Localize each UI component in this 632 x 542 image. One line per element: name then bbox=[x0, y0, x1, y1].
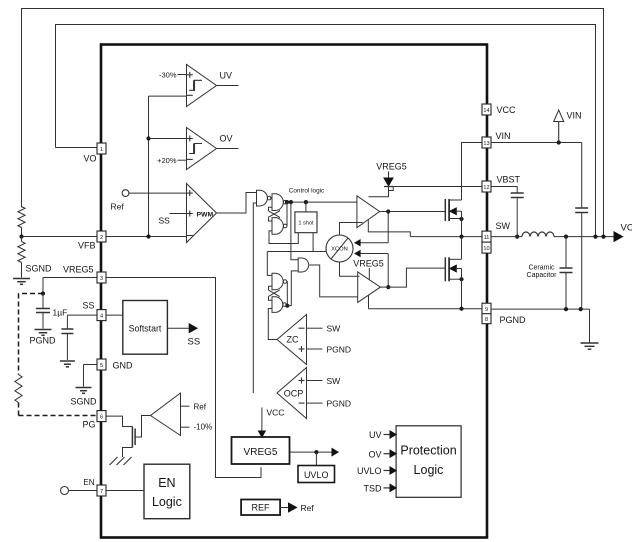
nand gate G1 bbox=[257, 190, 272, 206]
label VIN pin bbox=[496, 131, 511, 141]
wire low driver out to gate bbox=[380, 268, 445, 287]
label EN pin bbox=[83, 478, 94, 487]
svg-text:VO: VO bbox=[621, 223, 632, 234]
svg-text:XCON: XCON bbox=[331, 247, 348, 253]
wire XCON top to high driver bbox=[340, 223, 363, 236]
svg-text:ZC: ZC bbox=[287, 335, 299, 345]
svg-text:2: 2 bbox=[100, 235, 103, 241]
diode D1 (bootstrap) bbox=[384, 172, 393, 187]
capacitor C4 (bootstrap) bbox=[511, 193, 524, 198]
block Protection Logic bbox=[396, 426, 461, 498]
svg-text:SW: SW bbox=[327, 324, 341, 334]
latch1 cross wires bbox=[269, 207, 280, 221]
svg-text:VREG5: VREG5 bbox=[353, 259, 384, 269]
terminal EN input circle bbox=[61, 487, 69, 495]
node VO fb outer junction bbox=[601, 235, 605, 239]
comparator UV minus input bbox=[149, 94, 193, 97]
wire G5 output bbox=[287, 305, 292, 307]
wire sense line UV/OV/PWM bbox=[148, 96, 150, 236]
wire latch2 to G6 bottom input bbox=[291, 271, 298, 306]
wire softstart SS output bbox=[167, 324, 197, 333]
wire UVLO arrow bbox=[384, 467, 397, 474]
wire M2 source to PGND bbox=[461, 269, 463, 309]
label XCON bbox=[331, 247, 348, 253]
label SGND (divider) bbox=[26, 264, 53, 274]
label UVLO (prot in) bbox=[357, 466, 382, 476]
svg-text:1: 1 bbox=[100, 147, 103, 153]
svg-text:OCP: OCP bbox=[284, 389, 304, 399]
svg-text:1 shot: 1 shot bbox=[298, 221, 314, 227]
label SW (OCP) bbox=[327, 376, 341, 386]
svg-text:Logic: Logic bbox=[152, 495, 182, 509]
svg-text:Ref: Ref bbox=[301, 503, 315, 513]
label Softstart block bbox=[129, 324, 162, 334]
wire SW pin11 to inductor bbox=[491, 236, 522, 238]
capacitor C1 1uF (VREG5 bypass) bbox=[36, 309, 50, 313]
svg-text:PWM: PWM bbox=[197, 212, 214, 219]
label -30% bbox=[159, 71, 177, 80]
label PGND (C1) bbox=[30, 336, 57, 346]
label UV (prot in) bbox=[369, 430, 382, 440]
wire C4 to SW bbox=[516, 198, 518, 237]
svg-text:Ref: Ref bbox=[111, 202, 125, 212]
svg-text:SGND: SGND bbox=[71, 397, 98, 407]
wire UV arrow bbox=[384, 431, 397, 438]
label VREG5 block bbox=[244, 447, 278, 458]
svg-text:4: 4 bbox=[100, 313, 103, 319]
block Softstart bbox=[123, 301, 168, 355]
wire VREG5 pin3 to block bbox=[106, 278, 261, 478]
svg-text:Ref: Ref bbox=[194, 403, 207, 412]
wire G4 output down bbox=[286, 282, 289, 306]
and gate G6 bbox=[298, 258, 309, 272]
label Ref (PWM) bbox=[111, 202, 125, 212]
comparator OV minus input bbox=[178, 158, 193, 161]
label VREG5 (low driver) bbox=[353, 259, 384, 269]
wire VFB node to pin 2 bbox=[22, 236, 98, 238]
wire OV arrow bbox=[384, 450, 397, 457]
ground chassis (M3 source) bbox=[110, 457, 132, 465]
wire C3 to PGND rail bbox=[581, 213, 583, 310]
svg-text:Capacitor: Capacitor bbox=[527, 272, 558, 279]
svg-text:SS: SS bbox=[82, 301, 94, 311]
comparator OCP minus input bbox=[299, 402, 323, 404]
wire SS pin4 to C2 bbox=[67, 315, 97, 329]
dashed pull-up network left upper bbox=[18, 294, 20, 375]
svg-text:EN: EN bbox=[83, 478, 94, 487]
comparator UV plus input bbox=[178, 72, 193, 78]
wire PG pin6 to M3 drain bbox=[106, 416, 132, 426]
block VREG5 bbox=[232, 437, 290, 464]
wire high driver return to SW bbox=[368, 220, 410, 237]
label Logic (protection) bbox=[414, 463, 444, 477]
comparator ZC minus input bbox=[299, 327, 323, 329]
node M1 source bbox=[459, 217, 463, 221]
svg-text:VCC: VCC bbox=[267, 408, 285, 418]
label GND pin bbox=[113, 361, 134, 371]
comparator UV bbox=[187, 65, 217, 107]
wire VREG5 output bbox=[290, 449, 339, 456]
wire VREG5 to low driver supply bbox=[368, 268, 370, 280]
svg-text:14: 14 bbox=[483, 108, 489, 114]
capacitor C5 ceramic bbox=[560, 268, 573, 273]
label VCC pin bbox=[497, 105, 517, 115]
wire PGND internal bbox=[369, 308, 483, 310]
wire VBST pin12 to C4 bbox=[491, 187, 517, 194]
svg-text:VREG5: VREG5 bbox=[244, 447, 278, 458]
wire XCON bottom to low driver bbox=[340, 262, 360, 276]
comparator UV output wire bbox=[217, 85, 239, 87]
transistor M2 low-side NMOS bbox=[445, 257, 461, 281]
label PGND (ZC) bbox=[327, 345, 352, 355]
wire PGND rail bbox=[491, 309, 590, 342]
ground earth (PGND rail) bbox=[581, 343, 599, 349]
node VREG5 out bbox=[314, 450, 318, 454]
wire PWM output bbox=[217, 193, 257, 214]
wire high driver out to gate bbox=[380, 211, 445, 213]
wire pin7 to EN logic bbox=[106, 490, 144, 492]
pin 5 GND bbox=[97, 359, 106, 370]
svg-text:REF: REF bbox=[252, 503, 271, 513]
dashed pull-up network top bbox=[19, 293, 44, 295]
wire M1 source to SW bbox=[461, 211, 463, 236]
pin 8 bbox=[482, 314, 491, 324]
svg-text:-10%: -10% bbox=[194, 423, 213, 432]
pin 4 SS bbox=[97, 310, 106, 321]
svg-text:6: 6 bbox=[100, 414, 103, 420]
label Ceramic Capacitor bbox=[527, 265, 558, 280]
nand gate G4 (latch2 top) bbox=[272, 273, 287, 289]
svg-text:9: 9 bbox=[485, 307, 488, 313]
pin 11 SW bbox=[482, 231, 491, 242]
label SS output bbox=[188, 337, 201, 348]
svg-text:UV: UV bbox=[369, 430, 382, 440]
terminal Ref circle (PWM) bbox=[122, 190, 129, 197]
svg-text:VIN: VIN bbox=[567, 111, 582, 121]
ground SGND (pin5) bbox=[76, 388, 92, 394]
wire ceramic cap branch bbox=[565, 237, 567, 268]
comparator PWM plus1 bbox=[187, 190, 193, 196]
wire C1 to PGND bbox=[42, 313, 44, 329]
svg-text:VREG5: VREG5 bbox=[376, 162, 407, 172]
wire G5 bottom input from ZC bbox=[268, 309, 277, 340]
comparator PWM bbox=[187, 184, 217, 243]
label SS (PWM input) bbox=[159, 216, 171, 226]
svg-text:VFB: VFB bbox=[78, 241, 96, 251]
svg-text:VBST: VBST bbox=[497, 175, 521, 185]
pin 9 bbox=[482, 303, 491, 314]
nand gate G2 (latch1 top) bbox=[272, 194, 287, 211]
resistor R2 (lower feedback divider) bbox=[18, 237, 25, 263]
comparator PWM minus bbox=[187, 235, 193, 237]
svg-text:3: 3 bbox=[100, 276, 103, 282]
dashed pull-up network bottom to PG pin bbox=[19, 415, 98, 417]
comparator PG ref input bbox=[181, 403, 207, 412]
svg-text:VO: VO bbox=[83, 154, 96, 164]
pin 12 VBST bbox=[482, 181, 491, 192]
wire VCC arrow into VREG5 bbox=[259, 408, 266, 438]
pin 10 bbox=[482, 242, 491, 253]
driver buffer high-side bbox=[357, 196, 380, 228]
svg-text:OV: OV bbox=[220, 134, 233, 144]
wire VFB pin2 to PWM minus bbox=[106, 236, 187, 238]
node PGND C5 junction bbox=[564, 307, 568, 311]
node low driver out bbox=[386, 285, 390, 289]
label Protection bbox=[400, 444, 456, 458]
wire low gate to XCON arrow bbox=[355, 251, 388, 288]
label SW pin bbox=[496, 221, 511, 231]
terminal VO arrow bbox=[614, 232, 623, 242]
pin 2 VFB bbox=[97, 231, 106, 242]
label OV out bbox=[220, 134, 233, 144]
wire TSD arrow bbox=[384, 484, 397, 491]
label PGND pin bbox=[500, 315, 527, 325]
label EN block line1 bbox=[158, 476, 175, 490]
block EN Logic bbox=[144, 464, 190, 519]
wire Ref to PWM comparator bbox=[129, 192, 187, 194]
pin 3 VREG5 bbox=[97, 272, 106, 283]
label Control logic bbox=[289, 188, 325, 195]
comparator ZC bbox=[277, 315, 307, 365]
comparator OCP plus input bbox=[299, 378, 323, 384]
comparator PG (points left) bbox=[151, 393, 181, 436]
svg-text:SS: SS bbox=[159, 216, 171, 226]
svg-text:PG: PG bbox=[82, 420, 95, 430]
svg-text:UV: UV bbox=[220, 71, 233, 81]
ground SGND (divider) bbox=[13, 279, 30, 285]
wire XCON feed line bbox=[267, 251, 326, 253]
node VO fb inner junction bbox=[593, 235, 597, 239]
IC boundary box bbox=[101, 45, 487, 538]
wire low driver return to PGND bbox=[368, 295, 370, 309]
wire VIN rail bbox=[491, 143, 582, 209]
node high driver out bbox=[386, 209, 390, 213]
comparator OV plus input bbox=[149, 136, 193, 142]
node latch2 out bbox=[285, 304, 289, 308]
node PGND junction bbox=[459, 307, 463, 311]
nand gate G5 (latch2 bottom) bbox=[272, 297, 286, 313]
pin 6 PG bbox=[97, 411, 106, 422]
svg-text:TSD: TSD bbox=[364, 484, 383, 494]
nand gate G3 (latch1 bottom) bbox=[272, 218, 287, 235]
comparator OV hysteresis symbol bbox=[189, 144, 202, 154]
svg-text:VCC: VCC bbox=[497, 105, 517, 115]
svg-text:Ceramic: Ceramic bbox=[528, 265, 555, 272]
svg-text:VREG5: VREG5 bbox=[63, 265, 94, 275]
label 1 shot bbox=[298, 221, 314, 227]
driver buffer low-side bbox=[358, 272, 381, 303]
pin 1 VO bbox=[97, 143, 106, 154]
wire REF output arrow bbox=[280, 503, 296, 512]
comparator PWM plus2 input SS bbox=[170, 211, 193, 217]
svg-text:PGND: PGND bbox=[327, 399, 352, 409]
svg-text:-30%: -30% bbox=[159, 71, 177, 80]
svg-text:+20%: +20% bbox=[157, 156, 177, 165]
svg-text:VIN: VIN bbox=[496, 131, 511, 141]
resistor R1 (upper feedback divider) bbox=[18, 207, 25, 228]
comparator PG -10% input bbox=[181, 423, 213, 432]
wire C2 to ground bbox=[66, 334, 68, 361]
wire R1 to VFB node bbox=[21, 228, 23, 237]
node OV plus junction bbox=[146, 136, 150, 140]
label PWM bbox=[197, 212, 214, 219]
svg-text:UVLO: UVLO bbox=[357, 466, 382, 476]
label SS pin bbox=[82, 301, 94, 311]
svg-text:5: 5 bbox=[100, 363, 103, 369]
wire GND pin5 to SGND bbox=[84, 365, 98, 387]
svg-text:1µF: 1µF bbox=[53, 308, 68, 318]
node VREG5 bypass junction bbox=[41, 291, 45, 295]
ground PGND (C1) bbox=[35, 330, 52, 336]
svg-text:Protection: Protection bbox=[400, 444, 456, 458]
block UVLO bbox=[298, 466, 335, 483]
wire inductor to VO bbox=[554, 236, 614, 238]
wire one-shot top bbox=[305, 202, 307, 212]
label UVLO block bbox=[304, 470, 329, 480]
wire SW to M2 drain bbox=[461, 237, 463, 260]
pin 13 VIN bbox=[482, 137, 491, 148]
label ZC bbox=[287, 335, 299, 345]
svg-text:12: 12 bbox=[483, 185, 489, 191]
svg-text:8: 8 bbox=[485, 317, 488, 323]
node VFB junction bbox=[19, 234, 23, 238]
wire R2 to SGND bbox=[21, 263, 23, 278]
node VO ceramic junction bbox=[564, 235, 568, 239]
capacitor C3 (input) bbox=[575, 208, 588, 213]
svg-text:OV: OV bbox=[368, 450, 381, 460]
wire G6 output to low driver bbox=[309, 265, 357, 297]
svg-text:SGND: SGND bbox=[26, 264, 53, 274]
transistor M3 PG open-drain bbox=[123, 427, 136, 458]
label REF block bbox=[252, 503, 271, 513]
node PWM minus junction bbox=[146, 234, 150, 238]
wire VO feedback outer (VO node to feedback divider) bbox=[22, 9, 604, 237]
wire latch1 to G6 top input bbox=[291, 202, 298, 260]
label +20% bbox=[157, 156, 177, 165]
svg-text:SW: SW bbox=[496, 221, 511, 231]
node M2 source bbox=[459, 277, 463, 281]
label VCC (VREG5 in) bbox=[267, 408, 285, 418]
wire XCON line to G4 input bbox=[267, 252, 272, 276]
svg-text:UVLO: UVLO bbox=[304, 470, 329, 480]
svg-text:10: 10 bbox=[483, 246, 489, 252]
svg-text:SW: SW bbox=[327, 376, 341, 386]
label SGND (pin5) bbox=[71, 397, 98, 407]
label OCP bbox=[284, 389, 304, 399]
inductor L1 bbox=[522, 232, 554, 237]
svg-text:PGND: PGND bbox=[327, 345, 352, 355]
comparator OV output wire bbox=[217, 148, 239, 150]
XCON circle bbox=[326, 235, 353, 262]
wire OCP to G1 input bbox=[253, 203, 256, 393]
node latch1 out a bbox=[285, 200, 289, 204]
node VIN terminal junction bbox=[557, 140, 561, 144]
label VO bbox=[83, 154, 96, 164]
label VFB bbox=[78, 241, 96, 251]
comparator OV bbox=[187, 128, 217, 170]
svg-text:Control logic: Control logic bbox=[289, 188, 325, 195]
wire latch1 output bbox=[287, 201, 358, 203]
label EN block line2 bbox=[152, 495, 182, 509]
svg-text:13: 13 bbox=[483, 141, 489, 147]
wire EN terminal to pin 7 bbox=[69, 490, 98, 492]
one-shot block bbox=[295, 212, 317, 233]
label VREG5 (bootstrap diode) bbox=[376, 162, 407, 172]
wire G1 out to G2 input bbox=[270, 197, 272, 199]
label SW (ZC) bbox=[327, 324, 341, 334]
label PGND (OCP) bbox=[327, 399, 352, 409]
label VO terminal bbox=[621, 223, 632, 234]
block REF bbox=[241, 500, 280, 516]
node latch1 out b bbox=[289, 200, 293, 204]
label OV (prot in) bbox=[368, 450, 381, 460]
wire C5 to PGND rail bbox=[565, 273, 567, 310]
svg-text:EN: EN bbox=[158, 476, 175, 490]
resistor R3 (PG pull-up, dashed net) bbox=[15, 375, 22, 403]
label PG pin bbox=[82, 420, 95, 430]
wire VREG5 to UVLO bbox=[315, 452, 317, 465]
node latch1 out c bbox=[304, 200, 308, 204]
label VIN terminal bbox=[567, 111, 582, 121]
comparator UV hysteresis symbol bbox=[189, 80, 202, 90]
node C4 SW junction bbox=[515, 235, 519, 239]
wire M3 gate from comparator bbox=[135, 416, 150, 438]
svg-text:GND: GND bbox=[113, 361, 134, 371]
node SW junction bbox=[459, 235, 463, 239]
label UV out bbox=[220, 71, 233, 81]
comparator OCP bbox=[277, 368, 307, 419]
svg-text:PGND: PGND bbox=[30, 336, 57, 346]
comparator ZC plus input bbox=[299, 346, 323, 352]
wire pin4 to softstart bbox=[106, 314, 123, 316]
latch2 cross wires bbox=[269, 286, 280, 300]
label TSD (prot in) bbox=[364, 484, 383, 494]
svg-text:PGND: PGND bbox=[500, 315, 527, 325]
wire VO feedback inner (VO node to VO pin 1) bbox=[56, 25, 596, 237]
terminal VIN triangle bbox=[554, 110, 564, 143]
svg-text:11: 11 bbox=[484, 235, 490, 241]
ground (C2) bbox=[60, 361, 75, 367]
node PGND C3 junction bbox=[579, 307, 583, 311]
label VREG5 pin bbox=[63, 265, 94, 275]
svg-text:7: 7 bbox=[100, 489, 103, 495]
capacitor C2 (soft-start) bbox=[61, 329, 73, 334]
wire SW internal bbox=[410, 236, 482, 238]
pin 7 EN bbox=[97, 485, 106, 496]
transistor M1 high-side NMOS bbox=[445, 199, 461, 221]
svg-text:Softstart: Softstart bbox=[129, 324, 162, 334]
wire one-shot bottom to XCON line bbox=[312, 233, 314, 252]
svg-text:SS: SS bbox=[188, 337, 201, 348]
pin 14 VCC bbox=[482, 104, 491, 115]
wire VREG5 pin3 to bypass cap bbox=[43, 278, 97, 294]
label 1uF bbox=[53, 308, 68, 318]
dashed pull-up network left lower bbox=[18, 403, 20, 416]
wire high gate to XCON arrow bbox=[355, 212, 388, 246]
wire VIN pin13 to M1 drain bbox=[462, 143, 483, 201]
svg-text:Logic: Logic bbox=[414, 463, 444, 477]
label VBST pin bbox=[497, 175, 521, 185]
wire D1 to VBST and driver supply bbox=[369, 187, 483, 197]
label Ref out bbox=[301, 503, 315, 513]
wire G3 output to latch node bbox=[286, 202, 288, 226]
wire junction to C1 bbox=[42, 294, 44, 309]
wire G3 bottom input from one-shot bbox=[269, 231, 298, 244]
